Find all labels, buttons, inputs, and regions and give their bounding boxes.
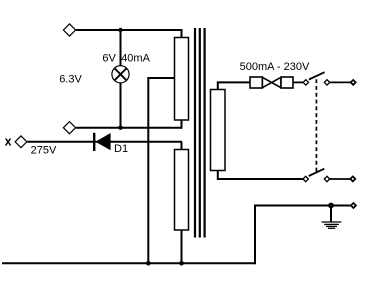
svg-text:6.3V: 6.3V — [59, 73, 82, 85]
svg-text:6V: 6V — [102, 53, 116, 65]
wire right riser — [254, 205, 256, 265]
wire top row horizontal — [76, 29, 182, 31]
transformer winding P1 — [175, 38, 189, 121]
wire secondary top lead — [218, 82, 250, 89]
terminal diamond x input — [15, 136, 27, 148]
switch S1b contact right — [324, 176, 329, 181]
switch link dashed — [315, 79, 317, 173]
terminal diamond ground-right — [351, 203, 356, 208]
wire row2 horizontal — [76, 127, 182, 129]
terminal diamond top-right — [351, 80, 356, 85]
ground symbol — [322, 206, 342, 229]
svg-text:x: x — [5, 135, 12, 149]
wire 6.3V tap vertical — [147, 77, 149, 263]
wire switch to terminal top — [329, 81, 350, 83]
transformer winding S1 — [211, 90, 226, 171]
transformer core lines — [195, 28, 205, 238]
wire lamp upper — [120, 30, 122, 66]
switch S1b blade — [309, 169, 325, 176]
wire switch to terminal mid — [329, 178, 350, 180]
node junction ground — [328, 203, 334, 209]
wire diode row — [27, 141, 182, 143]
terminal diamond top-left — [63, 24, 75, 36]
svg-text:D1: D1 — [114, 143, 128, 155]
terminal diamond mid-left — [63, 122, 75, 134]
wire 6.3V tap horizontal — [148, 77, 174, 79]
transformer winding P2 — [175, 150, 189, 231]
svg-text:40mA: 40mA — [121, 53, 150, 65]
fuse F1 bowtie — [262, 77, 281, 88]
node junction J2 — [118, 126, 122, 130]
wire primary1 bottom lead — [181, 120, 183, 129]
wire lamp lower — [120, 83, 122, 128]
diode D1 — [93, 133, 95, 151]
svg-text:500mA - 230V: 500mA - 230V — [240, 61, 310, 73]
wire bottom rail — [2, 262, 255, 264]
fuse F1 body right box — [281, 77, 293, 88]
node junction bottom P2 — [179, 261, 184, 266]
terminal diamond mid-right — [350, 176, 355, 181]
lamp 6V 40mA — [112, 66, 129, 83]
svg-text:275V: 275V — [31, 144, 57, 156]
fuse F1 body left box — [250, 77, 262, 88]
wire primary1 top lead — [181, 29, 183, 38]
wire primary2 top lead — [181, 142, 183, 151]
switch S1a contact left — [303, 80, 308, 85]
node junction J1 — [118, 28, 122, 32]
wire secondary bottom lead — [218, 171, 303, 180]
switch S1b contact left — [303, 176, 308, 181]
wire ground row — [254, 205, 351, 207]
switch S1a blade — [309, 72, 325, 79]
switch S1a contact right — [324, 80, 329, 85]
node junction bottom tap — [146, 261, 151, 266]
wire fuse to switch — [293, 81, 303, 83]
wire primary2 bottom lead — [181, 230, 183, 263]
